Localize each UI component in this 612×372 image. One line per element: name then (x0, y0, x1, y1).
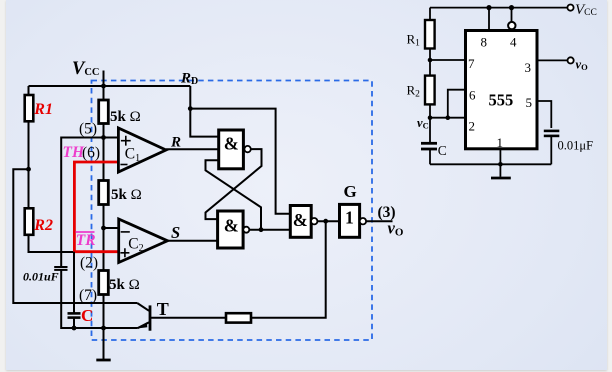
wire pin4 (511, 8, 513, 22)
resistor base (226, 313, 251, 322)
blue dashed boundary box of 555 internal diagram (92, 81, 373, 341)
node 5 junction (101, 135, 106, 140)
wire R1 bottom to R2 (28, 121, 30, 208)
op-amp comparator C1 (118, 128, 166, 172)
resistor R2 (right) (425, 76, 435, 105)
wire node5 left to control cap (61, 138, 103, 267)
inverter gate G (340, 204, 360, 237)
svg-text:&: & (293, 210, 308, 230)
svg-text:4: 4 (510, 35, 517, 50)
wire pin3 to vo terminal (537, 59, 568, 61)
svg-text:R2: R2 (33, 217, 53, 234)
svg-text:1: 1 (497, 135, 504, 150)
svg-text:S: S (171, 223, 180, 242)
wire G2 output to NAND3 (249, 229, 290, 231)
op-amp comparator C2 (119, 219, 168, 263)
svg-text:(5): (5) (79, 121, 97, 138)
node top pin8 (486, 5, 491, 10)
wire pin1 (499, 149, 501, 165)
svg-text:&: & (224, 216, 239, 236)
svg-text:(7): (7) (79, 287, 97, 304)
wire output vo (366, 220, 392, 222)
wire feedback to transistor base (251, 221, 326, 318)
svg-text:TR: TR (76, 232, 96, 249)
ground rail (61, 327, 137, 329)
plus sign C1 input (121, 136, 131, 146)
wire cap C to bottom rail (429, 149, 431, 164)
resistor R1 (25, 95, 34, 121)
resistor 5k (bottom) (99, 271, 109, 295)
wire R2 to vc node (429, 104, 431, 143)
svg-text:R: R (170, 135, 181, 151)
wire pin6 (448, 90, 466, 118)
terminal Vcc (567, 5, 573, 11)
wire cap C to ground rail (73, 318, 75, 328)
svg-text:0.01uF: 0.01uF (23, 270, 59, 284)
wire pin7 (430, 59, 466, 61)
capacitor C plates (68, 312, 81, 315)
svg-text:vO: vO (576, 58, 589, 73)
resistor R1 (right) (425, 20, 435, 49)
capacitor 0.01uF plates (544, 130, 560, 133)
svg-text:R1: R1 (407, 32, 421, 49)
node R1/R2 junction (26, 167, 31, 172)
wire NAND3 to inverter G (317, 220, 339, 222)
svg-text:C1: C1 (125, 146, 140, 165)
red wire TR horizontal to C2 plus (73, 250, 119, 253)
wire R1 to pin7 (429, 49, 431, 76)
wire pin8 (488, 8, 490, 31)
svg-text:1: 1 (345, 208, 354, 228)
top supply wire (29, 85, 191, 87)
bottom rail (430, 163, 551, 165)
chip 555 (466, 31, 538, 149)
svg-text:G: G (344, 182, 357, 201)
svg-text:VCC: VCC (72, 59, 100, 79)
svg-text:(2): (2) (80, 255, 98, 272)
svg-text:C: C (81, 306, 93, 325)
node top pin4 (509, 5, 514, 10)
plus sign C2 input (120, 248, 129, 257)
svg-text:5k Ω: 5k Ω (110, 109, 141, 125)
ground (103, 328, 105, 360)
svg-text:5k Ω: 5k Ω (111, 187, 142, 203)
svg-text:vC: vC (417, 116, 429, 131)
terminal vo (568, 57, 574, 63)
svg-text:6: 6 (469, 88, 476, 103)
node RD junction (188, 106, 193, 111)
ground (right) (499, 164, 501, 177)
capacitor C (right) plates (421, 142, 437, 145)
wire RD vertical from supply (190, 86, 218, 137)
capacitor 0.01uF plates (54, 266, 67, 268)
red wire TH vertical (73, 162, 76, 252)
resistor 5k (middle) (99, 181, 109, 205)
pin4 inverter bubble (508, 22, 515, 29)
minus sign C1 input (120, 164, 127, 166)
svg-text:C2: C2 (128, 236, 143, 255)
wire discharge loop: R1/R2 junction to pin7 line (13, 169, 137, 303)
wire node5 to C1 plus input (104, 137, 119, 139)
NAND gate 3 (290, 206, 311, 238)
node 2/3 divider junction to C2 minus (101, 226, 106, 231)
svg-text:&: & (224, 134, 239, 154)
wire R1 top lead (429, 8, 431, 20)
svg-text:C: C (438, 143, 447, 158)
svg-text:8: 8 (481, 35, 488, 50)
svg-text:3: 3 (525, 60, 532, 75)
wire 5k1 to 5k2 (103, 124, 105, 181)
wire pin5 to filter cap (537, 101, 551, 128)
svg-text:555: 555 (489, 90, 514, 109)
wire G2 output cross-couple to G1 input (206, 160, 262, 229)
wire RD branch to output NAND (190, 109, 290, 214)
svg-text:2: 2 (469, 119, 476, 134)
Vcc stub wire (103, 71, 105, 87)
wire filter cap to rail (550, 136, 552, 164)
resistor 5k (top) (99, 100, 109, 124)
wire S: C2 output to latch (168, 240, 218, 242)
NAND gate G1 (latch top) (219, 130, 244, 169)
NAND gate G2 (latch bottom) (218, 211, 244, 248)
wire R1 top lead (28, 86, 30, 95)
transistor T (149, 305, 152, 330)
resistor R2 (25, 208, 34, 235)
top wire to Vcc terminal (430, 7, 567, 9)
svg-text:T: T (157, 299, 169, 319)
svg-text:(6): (6) (82, 145, 100, 162)
wire trigger node down to cap C (73, 252, 75, 314)
overline of TR label (76, 231, 95, 233)
svg-text:0.01μF: 0.01μF (558, 139, 594, 153)
svg-text:VCC: VCC (575, 2, 597, 18)
svg-text:5: 5 (526, 95, 533, 110)
svg-text:RD: RD (180, 71, 198, 88)
wire R: C1 output to latch (166, 148, 219, 150)
wire 5k2 to 5k3 (103, 205, 105, 271)
svg-text:7: 7 (468, 56, 475, 71)
wire pin2 (430, 117, 466, 119)
wire control cap to ground rail (61, 270, 74, 328)
wire rail Vcc down to 5k chain (103, 86, 105, 100)
wire R2 bottom to trigger node (29, 235, 75, 252)
wire G1 output cross-couple to G2 input (206, 149, 262, 219)
node Vcc junction (101, 84, 106, 89)
svg-text:vO: vO (388, 219, 404, 239)
wire 5k3 to ground rail (103, 295, 105, 329)
svg-text:R2: R2 (407, 83, 421, 100)
red wire TH horizontal to C1 minus (73, 161, 118, 164)
svg-text:5k Ω: 5k Ω (109, 277, 140, 293)
svg-text:R1: R1 (33, 101, 53, 118)
minus sign C2 input (121, 231, 130, 233)
wire resistor to base (151, 317, 226, 319)
